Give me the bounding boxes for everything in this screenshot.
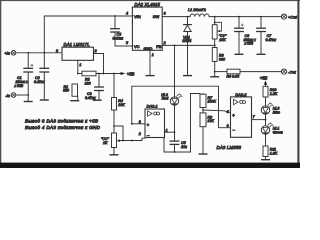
svg-text:2: 2: [138, 132, 141, 136]
ground (C6): [235, 53, 243, 55]
border frame: [0, 0, 300, 168]
svg-text:+: +: [232, 113, 235, 118]
svg-text:220: 220: [84, 81, 91, 85]
resistor R3: [212, 48, 225, 72]
node FB / pot bottom: [214, 45, 216, 47]
node C3: [98, 73, 100, 75]
ground (R11): [262, 159, 270, 161]
node pin1/R1: [77, 73, 79, 75]
svg-text:100K: 100K: [208, 100, 217, 104]
svg-text:2: 2: [94, 49, 97, 53]
terminal +Out: [281, 14, 297, 19]
resistor R2: [82, 71, 96, 85]
+5V rail wire: [96, 73, 121, 75]
wire DA3.2 pin7 output: [252, 119, 266, 121]
svg-text:6: 6: [227, 124, 229, 128]
ground (C3): [93, 99, 101, 101]
svg-text:VIN: VIN: [134, 14, 141, 19]
svg-text:Red: Red: [162, 97, 170, 101]
svg-text:+5В: +5В: [127, 71, 135, 76]
wire DA1 pin2 out: [94, 54, 104, 74]
svg-text:GND: GND: [144, 46, 153, 51]
svg-text:DA3.1: DA3.1: [147, 104, 158, 109]
LED HL1 Green: [261, 122, 283, 146]
ground (C1 / -In): [24, 101, 32, 103]
resistor R10: [263, 86, 278, 106]
wire pin1 node to R2: [78, 73, 82, 75]
svg-text:10K: 10K: [208, 119, 215, 123]
node R3 bottom: [214, 71, 216, 73]
svg-text:1: 1: [79, 63, 81, 67]
node pin3 riser base: [131, 140, 133, 142]
wire DA3.1 pin1 output: [165, 131, 175, 133]
ground (R8): [199, 153, 207, 155]
svg-text:7: 7: [253, 115, 256, 119]
svg-text:2: 2: [163, 41, 166, 45]
node R7/R8 midpoint: [202, 109, 204, 111]
wire DA2 GND pin down: [149, 50, 151, 75]
node VD1: [187, 16, 189, 18]
wire feedback bracket (DA3.1 bottom to R7 top): [164, 94, 200, 153]
svg-text:3: 3: [164, 12, 166, 16]
capacitor C6: [235, 17, 256, 54]
svg-text:DA1 LM317L: DA1 LM317L: [64, 42, 91, 47]
svg-text:10K: 10K: [219, 38, 226, 42]
svg-text:5: 5: [126, 41, 128, 45]
terminal -In: [5, 93, 15, 98]
svg-text:10н: 10н: [181, 145, 187, 149]
svg-text:0.47мк: 0.47мк: [266, 38, 277, 42]
node C4 junction: [114, 15, 116, 17]
svg-text:SW: SW: [153, 14, 160, 19]
ground (C7): [257, 53, 265, 55]
ground (C2): [41, 99, 49, 101]
node pin1 / HL2 / C5: [174, 131, 176, 133]
svg-text:-In: -In: [5, 93, 10, 98]
svg-text:1: 1: [152, 53, 154, 57]
buck converter DA2 XL4015: [126, 2, 166, 57]
svg-text:Blue: Blue: [273, 110, 280, 114]
svg-text:Вывод 4 DA3 подключен к GND: Вывод 4 DA3 подключен к GND: [25, 125, 101, 130]
+5V arrow (right): [260, 76, 268, 87]
ground (VD1): [184, 75, 192, 77]
wire FB: [162, 44, 215, 46]
setpoint wire (to pin3 / pin6): [132, 86, 231, 128]
resistor R11: [263, 146, 278, 159]
svg-text:-Out: -Out: [288, 69, 297, 74]
svg-text:х 50В: х 50В: [244, 42, 254, 46]
node tap riser: [122, 140, 124, 142]
svg-text:+5В: +5В: [260, 76, 268, 81]
svg-text:5: 5: [227, 110, 229, 114]
wire R9 to -Out: [240, 71, 281, 73]
node pin3 riser: [131, 123, 133, 125]
svg-text:DA2 XL4015: DA2 XL4015: [135, 2, 161, 7]
potentiometer CC 1K: [101, 133, 121, 154]
terminal +In: [4, 51, 15, 56]
node pin2 riser: [103, 73, 105, 75]
svg-text:+Out: +Out: [288, 14, 298, 19]
svg-text:+: +: [147, 122, 150, 127]
op-amp regulator DA1 LM317L: [56, 42, 97, 67]
svg-text:0.47мк: 0.47мк: [34, 80, 45, 84]
wire -In to C1 column: [16, 94, 28, 96]
svg-text:10K: 10K: [118, 103, 125, 107]
ground (CC pot): [110, 154, 118, 156]
svg-text:х 50В: х 50В: [14, 84, 24, 88]
svg-text:−: −: [232, 128, 235, 133]
svg-text:3: 3: [56, 49, 58, 53]
svg-text:FB: FB: [156, 44, 161, 49]
svg-text:Вывод 8 DA3 подключен к +5В: Вывод 8 DA3 подключен к +5В: [25, 119, 98, 124]
ground (DA2 GND): [146, 75, 154, 77]
node R4/pot tap: [113, 125, 115, 127]
+5V arrow: [121, 71, 135, 76]
comparator DA3.1: [138, 104, 168, 139]
svg-text:L1 20мкГн: L1 20мкГн: [188, 8, 207, 12]
node HL2 riser on FB wire: [174, 45, 176, 47]
wire midpoint to DA3.2 pin5: [203, 110, 231, 113]
resistor R4: [112, 74, 126, 134]
inductor L1 20mkGn: [188, 8, 281, 17]
svg-text:1.8K: 1.8K: [270, 92, 278, 96]
capacitor C3: [85, 74, 103, 101]
LED HL2 Red: [161, 93, 182, 105]
wire +In to DA1 pin3: [16, 52, 62, 54]
svg-text:330: 330: [219, 57, 225, 61]
terminal -Out: [281, 69, 296, 74]
svg-text:−: −: [147, 133, 150, 138]
wire HL2 riser from FB: [174, 45, 176, 96]
svg-text:SR54: SR54: [182, 39, 191, 43]
wire SW rail: [162, 16, 190, 18]
node pin7/LED column: [265, 119, 267, 121]
node R4 riser: [113, 73, 115, 75]
svg-text:680: 680: [63, 89, 69, 93]
svg-text:DA3 LM358: DA3 LM358: [217, 145, 242, 150]
LED HL3 Blue: [261, 102, 280, 126]
node -In/C1: [27, 94, 29, 96]
diode VD1 SR54: [182, 17, 191, 76]
wire riser to top rail: [43, 16, 45, 53]
node C5 bottom on bracket: [174, 151, 176, 153]
resistor R1: [63, 84, 78, 100]
comparator DA3.2: [227, 92, 256, 137]
capacitor C2: [34, 53, 49, 100]
ground (R3 node): [214, 72, 216, 77]
node C2 junction: [43, 52, 45, 54]
wire DA1 pin1 down: [77, 60, 79, 73]
wire R3 node to R9: [215, 71, 227, 73]
svg-text:4: 4: [126, 12, 128, 16]
svg-text:Green: Green: [273, 130, 283, 134]
resistor R9 0.05 (shunt): [227, 69, 241, 78]
wire HL2 to DA3.1 out node: [174, 105, 176, 132]
svg-text:+In: +In: [4, 51, 10, 56]
potentiometer CV 10K: [212, 17, 227, 48]
node C7: [260, 16, 262, 18]
node C1 junction: [27, 52, 29, 54]
wire wiper line to DA3.1 pin2: [121, 138, 145, 140]
svg-text:1.8K: 1.8K: [270, 152, 278, 156]
svg-text:0.47мк: 0.47мк: [113, 37, 124, 41]
capacitor C1: [14, 53, 34, 95]
capacitor C5: [170, 132, 187, 152]
svg-text:0.47мк: 0.47мк: [85, 96, 96, 100]
resistor R7: [200, 94, 216, 113]
node C6: [238, 16, 240, 18]
svg-text:VC: VC: [134, 44, 140, 49]
resistor R8: [200, 113, 214, 154]
wire tap to wiper line: [114, 126, 123, 141]
svg-text:1K: 1K: [103, 141, 108, 145]
svg-text:DA3.2: DA3.2: [235, 92, 247, 97]
ground (R1): [71, 100, 79, 102]
svg-text:R9 0.05: R9 0.05: [227, 75, 240, 79]
capacitor C4: [111, 16, 133, 46]
wire pin3 input: [132, 123, 145, 125]
wire top input rail to DA2 VIN: [44, 15, 132, 17]
node CV riser: [214, 16, 216, 18]
capacitor C7: [257, 17, 277, 54]
